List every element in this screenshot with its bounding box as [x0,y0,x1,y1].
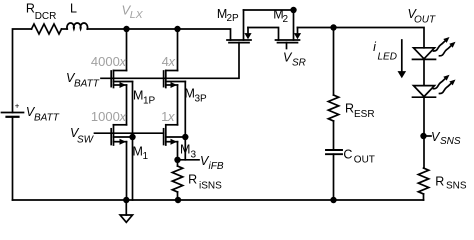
svg-text:SR: SR [292,58,306,69]
svg-text:x: x [167,109,175,124]
svg-text:2: 2 [283,14,289,25]
svg-text:LX: LX [130,9,144,21]
svg-text:BATT: BATT [34,113,60,124]
svg-text:+: + [15,102,20,111]
svg-text:x: x [119,54,127,69]
svg-text:R: R [435,175,444,189]
svg-text:M: M [133,144,143,158]
svg-text:R: R [26,1,35,15]
svg-text:M: M [180,143,190,157]
svg-text:R: R [345,101,354,115]
svg-text:M: M [133,89,143,103]
svg-text:R: R [188,173,197,187]
svg-text:OUT: OUT [414,15,436,26]
svg-text:SNS: SNS [440,136,461,147]
svg-text:ESR: ESR [354,109,375,120]
svg-text:1P: 1P [143,96,156,107]
svg-text:DCR: DCR [35,11,57,22]
svg-text:2P: 2P [227,13,240,24]
svg-text:L: L [70,2,77,16]
svg-text:x: x [119,109,127,124]
svg-text:3P: 3P [195,94,208,105]
svg-text:1: 1 [143,151,149,162]
svg-text:BATT: BATT [74,79,100,90]
svg-text:4000: 4000 [91,54,120,69]
svg-text:M: M [185,87,195,101]
svg-text:C: C [343,148,352,162]
svg-text:iFB: iFB [209,161,224,172]
svg-text:3: 3 [191,150,197,161]
svg-text:1000: 1000 [91,109,120,124]
svg-text:x: x [168,54,176,69]
svg-text:LED: LED [378,52,397,63]
svg-text:iSNS: iSNS [199,181,222,192]
svg-text:SNS: SNS [446,180,467,191]
svg-text:OUT: OUT [354,155,375,166]
svg-text:SW: SW [77,135,95,146]
